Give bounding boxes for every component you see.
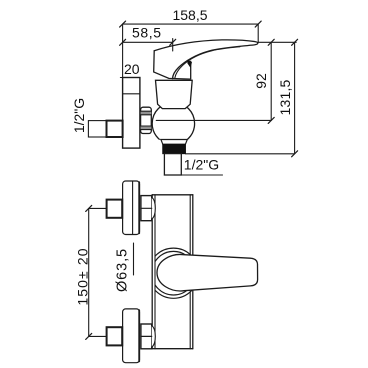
handle top edge / lever bbox=[154, 40, 258, 79]
svg-text:158,5: 158,5 bbox=[172, 7, 207, 23]
bottom pipe centre line bbox=[89, 335, 107, 337]
svg-text:1/2"G: 1/2"G bbox=[71, 98, 87, 133]
dim line 158,5 bbox=[120, 21, 262, 27]
lever (front view) bbox=[157, 254, 258, 290]
top pipe (front) bbox=[107, 200, 123, 218]
ball center line to 92 dim bbox=[156, 119, 271, 121]
leader line for Ø63,5 bbox=[133, 243, 135, 275]
dim line 58,5 bbox=[120, 39, 176, 52]
top pipe centre line bbox=[89, 207, 107, 209]
outlet nut (black) bbox=[163, 144, 186, 153]
collar under ball bbox=[161, 140, 187, 145]
lever under-curve 2 bbox=[175, 47, 240, 78]
svg-text:1/2"G: 1/2"G bbox=[184, 157, 219, 173]
wall flange (side view) bbox=[120, 78, 139, 149]
lever notch (dark) bbox=[187, 60, 192, 68]
bottom flange (front) bbox=[123, 309, 140, 363]
cartridge circles (clipped) bbox=[148, 248, 198, 298]
outlet pipe bbox=[164, 154, 181, 175]
extension line lever tip (down from 158,5) bbox=[257, 24, 259, 43]
svg-text:92: 92 bbox=[253, 73, 269, 89]
extension line nut bottom to 131,5 bbox=[185, 153, 294, 155]
top hex nut (front) bbox=[141, 196, 155, 221]
body panel bottom edge bbox=[152, 348, 193, 350]
svg-text:20: 20 bbox=[124, 61, 140, 77]
dim line 150±20 bbox=[86, 205, 92, 339]
body (side view) bbox=[156, 80, 193, 108]
handle cap (side view) bbox=[154, 51, 191, 79]
body panel left edges bbox=[151, 195, 153, 349]
svg-text:150± 20: 150± 20 bbox=[75, 247, 91, 305]
body panel right edges bbox=[189, 195, 191, 256]
extension line from lever tip to right bbox=[258, 41, 296, 43]
bottom pipe (front) bbox=[107, 327, 123, 345]
top flange (front) bbox=[123, 181, 140, 235]
svg-text:131,5: 131,5 bbox=[277, 79, 293, 115]
dim line 92 bbox=[268, 39, 274, 123]
wall nut (side view) bbox=[141, 107, 152, 133]
body panel top edge bbox=[152, 194, 193, 196]
extension line left (flange corner up) bbox=[122, 24, 124, 77]
inlet nut (side view) bbox=[107, 121, 123, 137]
dim line 131,5 bbox=[292, 39, 298, 157]
leader line 1/2"G outlet bbox=[164, 174, 222, 176]
bottom hex nut (front) bbox=[141, 324, 155, 349]
svg-text:Ø63,5: Ø63,5 bbox=[115, 248, 131, 292]
svg-text:58,5: 58,5 bbox=[132, 24, 162, 40]
inlet pipe (side view) bbox=[88, 121, 106, 137]
